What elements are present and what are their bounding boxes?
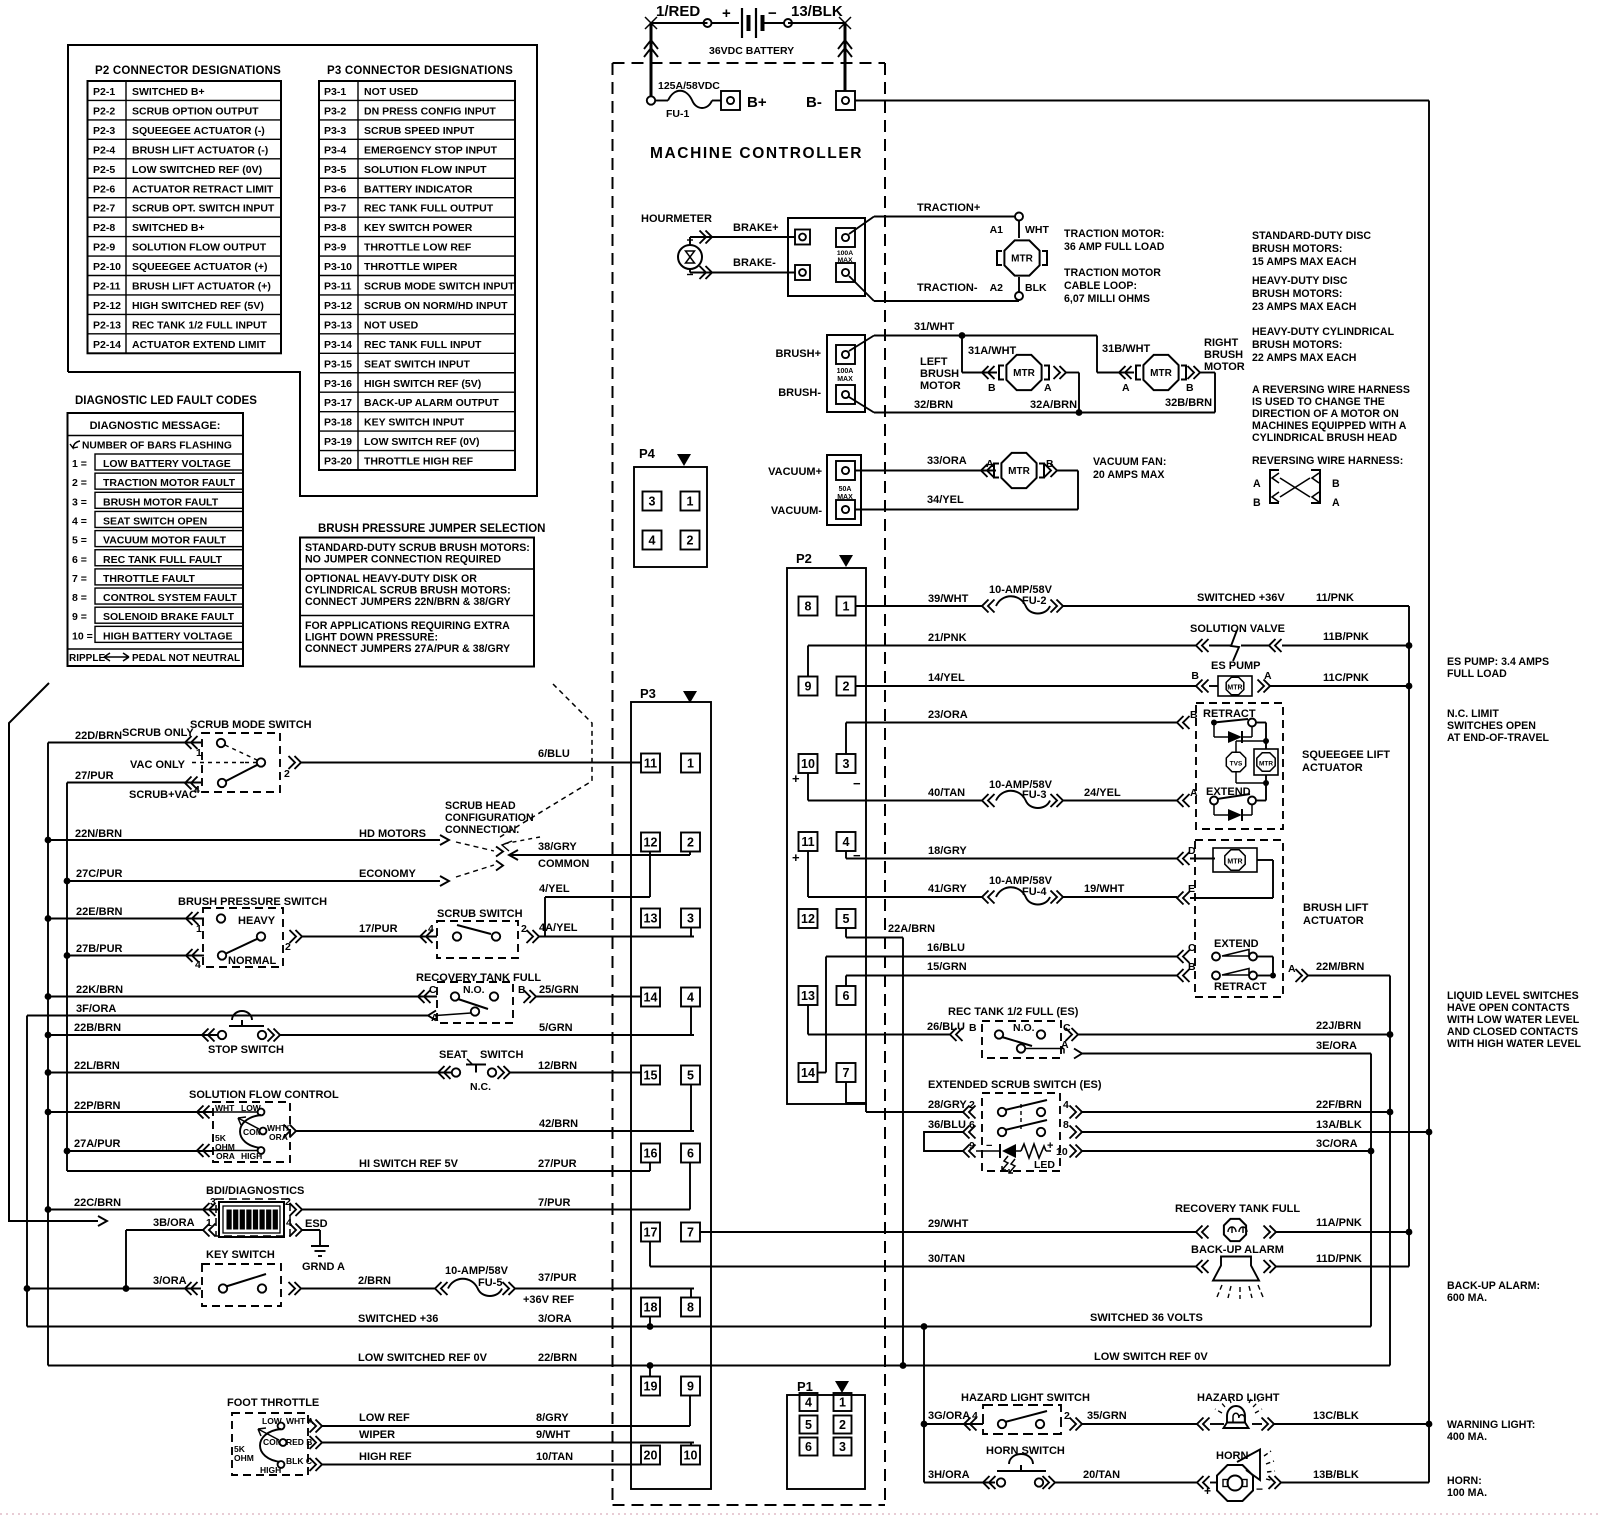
svg-text:ES PUMP: ES PUMP [1211,660,1261,672]
svg-text:15/GRN: 15/GRN [927,961,967,973]
svg-text:BLK: BLK [1025,282,1047,294]
BDI/diagnostics display U1 [206,1185,304,1237]
brush 100A MAX fuse block [775,335,865,412]
svg-text:18/GRY: 18/GRY [928,845,967,857]
svg-text:FU-2: FU-2 [1022,595,1046,607]
svg-text:HEAVY-DUTY CYLINDRICAL: HEAVY-DUTY CYLINDRICAL [1252,326,1395,338]
svg-text:ORA: ORA [216,1151,235,1161]
svg-text:SCRUB SWITCH: SCRUB SWITCH [437,908,523,920]
svg-text:400 MA.: 400 MA. [1447,1431,1487,1443]
svg-text:FU-1: FU-1 [666,108,689,120]
svg-text:10/TAN: 10/TAN [536,1451,573,1463]
svg-text:11D/PNK: 11D/PNK [1316,1253,1362,1265]
reversing wire harness symbol [1252,455,1403,509]
svg-text:3B/ORA: 3B/ORA [153,1217,195,1229]
svg-text:LOW REF: LOW REF [359,1412,410,1424]
svg-text:34/YEL: 34/YEL [927,494,964,506]
wire 32B/BRN from right brush motor [1165,366,1215,413]
svg-text:1: 1 [687,757,694,771]
wire 21/PNK from P2-9 [808,632,1196,677]
svg-text:CONNECTION.: CONNECTION. [445,824,519,836]
svg-text:BRUSH MOTORS:: BRUSH MOTORS: [1252,288,1342,300]
svg-text:2: 2 [1064,1410,1070,1422]
svg-text:P2-13: P2-13 [93,319,121,331]
svg-text:BRAKE+: BRAKE+ [733,222,779,234]
svg-text:37/PUR: 37/PUR [538,1272,577,1284]
wire 22N/BRN HD MOTORS [48,828,449,919]
junction 27B/PUR [64,952,71,959]
brush pressure jumper selection box [300,523,545,667]
wire 22P/BRN [48,1100,213,1210]
ES pump motor M2 [1191,660,1409,696]
horn LS2 [1204,1450,1429,1502]
svg-text:RETRACT: RETRACT [1214,981,1267,993]
svg-text:P2-14: P2-14 [93,339,121,351]
svg-text:4: 4 [286,1217,292,1229]
svg-text:4: 4 [649,534,656,548]
svg-text:1: 1 [839,1396,846,1410]
svg-text:17/PUR: 17/PUR [359,923,398,935]
wire 4/YEL to P3-12 [539,852,650,897]
svg-text:29/WHT: 29/WHT [928,1218,969,1230]
svg-text:TVS: TVS [1230,761,1243,768]
svg-text:SOLUTION FLOW OUTPUT: SOLUTION FLOW OUTPUT [132,242,267,254]
recovery tank full switch S5 [416,972,541,1023]
svg-text:+: + [792,850,800,865]
svg-text:100 MA.: 100 MA. [1447,1487,1487,1499]
svg-text:BRUSH LIFT ACTUATOR (+): BRUSH LIFT ACTUATOR (+) [132,281,271,293]
svg-text:2 =: 2 = [72,477,87,489]
svg-text:P3-12: P3-12 [324,300,352,312]
diagnostic LED fault codes table [68,395,258,666]
note warning light load [1447,1419,1535,1443]
wire 33/ORA to vacuum motor [855,455,996,477]
svg-text:HIGH REF: HIGH REF [359,1451,412,1463]
note reversing wire harness usage [1252,384,1410,444]
svg-text:2: 2 [687,534,694,548]
svg-text:BRUSH LIFT: BRUSH LIFT [1303,902,1369,914]
svg-text:4: 4 [1063,1099,1069,1111]
svg-text:3/ORA: 3/ORA [538,1313,572,1325]
svg-text:RIGHT: RIGHT [1204,337,1239,349]
svg-text:A: A [1044,382,1052,394]
wire 37/PUR +36V REF to P3-8 [515,1272,694,1306]
wire 6/BLU scrub mode to P3-11 [301,748,641,763]
junction 13C/BLK on B- bus [1426,1421,1433,1428]
wire 29/WHT from P3-7 [700,1218,1196,1232]
svg-text:HIGH BATTERY VOLTAGE: HIGH BATTERY VOLTAGE [103,630,233,642]
svg-text:C: C [1188,942,1196,954]
wire BRAKE- [690,257,795,279]
svg-text:9: 9 [969,1140,975,1152]
svg-text:3: 3 [649,495,656,509]
page edge dotted line [0,1513,1600,1515]
svg-text:MTR: MTR [1227,685,1242,692]
svg-text:P3-11: P3-11 [324,281,352,293]
svg-text:NUMBER OF BARS FLASHING: NUMBER OF BARS FLASHING [82,441,232,452]
svg-text:9/WHT: 9/WHT [536,1429,571,1441]
svg-text:1: 1 [196,747,202,759]
svg-text:BLK C: BLK C [286,1456,312,1466]
svg-text:3/ORA: 3/ORA [153,1275,187,1287]
svg-text:3 =: 3 = [72,496,87,508]
svg-text:SWITCHED +36: SWITCHED +36 [358,1313,438,1325]
+36V bus riser [1408,606,1410,1267]
svg-text:MTR: MTR [1011,254,1033,265]
svg-text:NORMAL: NORMAL [228,955,277,967]
junction 27A/PUR [64,1148,71,1155]
wire 22M/BRN [1288,961,1390,982]
svg-text:22L/BRN: 22L/BRN [74,1060,120,1072]
svg-text:P3-5: P3-5 [324,164,346,176]
svg-text:MAX: MAX [837,494,853,501]
svg-text:P3-6: P3-6 [324,183,346,195]
svg-text:REC TANK FULL FAULT: REC TANK FULL FAULT [103,554,223,566]
svg-text:28/GRY: 28/GRY [928,1099,967,1111]
svg-text:P3-1: P3-1 [324,86,346,98]
svg-text:SWITCHED B+: SWITCHED B+ [132,86,205,98]
svg-text:11C/PNK: 11C/PNK [1323,672,1369,684]
svg-text:WHT A: WHT A [286,1416,314,1426]
wire 3G/ORA to hazard switch [924,1327,983,1431]
svg-text:WARNING LIGHT:: WARNING LIGHT: [1447,1419,1535,1431]
hazard light switch S11 [961,1392,1090,1434]
svg-text:41/GRY: 41/GRY [928,883,967,895]
svg-text:27C/PUR: 27C/PUR [76,868,123,880]
svg-text:EXTEND: EXTEND [1214,938,1259,950]
traction motor MTR [997,240,1047,275]
svg-text:5 =: 5 = [72,535,87,547]
svg-text:A: A [1288,963,1296,975]
svg-text:TRACTION MOTOR:: TRACTION MOTOR: [1064,228,1164,240]
wire ESD to ground [290,1218,328,1246]
svg-text:17: 17 [644,1226,658,1240]
svg-text:IS USED TO CHANGE THE: IS USED TO CHANGE THE [1252,396,1385,408]
svg-text:27/PUR: 27/PUR [538,1158,577,1170]
svg-text:EMERGENCY STOP INPUT: EMERGENCY STOP INPUT [364,144,498,156]
svg-text:1: 1 [843,600,850,614]
svg-text:P4: P4 [639,446,656,461]
svg-text:LEFT: LEFT [920,356,948,368]
wire 16/BLU from P2-14 to extend switch C [818,942,1197,1073]
svg-text:RED B: RED B [286,1437,312,1447]
svg-text:VAC ONLY: VAC ONLY [130,759,186,771]
svg-text:A: A [1253,478,1261,490]
note heavy-duty disc brush motors [1252,275,1356,313]
svg-text:KEY SWITCH: KEY SWITCH [206,1249,275,1261]
svg-text:P3-13: P3-13 [324,319,352,331]
svg-text:FULL LOAD: FULL LOAD [1447,668,1507,680]
svg-text:FU-5: FU-5 [478,1277,502,1289]
svg-text:LOW SWITCH REF (0V): LOW SWITCH REF (0V) [364,436,480,448]
svg-text:13/BLK: 13/BLK [791,3,843,20]
svg-text:HD MOTORS: HD MOTORS [359,828,426,840]
wire 7/PUR BDI to P3-6 [290,1162,691,1216]
wire BRAKE+ [690,222,795,245]
wire 32/BRN brush motor return [849,397,1215,413]
squeegee lift actuator A1 [1196,703,1283,829]
junction switched36 at P3-18 [647,1323,654,1330]
svg-text:ACTUATOR: ACTUATOR [1303,915,1364,927]
svg-text:35/GRN: 35/GRN [1087,1410,1127,1422]
svg-text:16/BLU: 16/BLU [927,942,965,954]
svg-text:EXTENDED SCRUB SWITCH (ES): EXTENDED SCRUB SWITCH (ES) [928,1079,1102,1091]
svg-text:P3-14: P3-14 [324,339,352,351]
svg-text:COMMON: COMMON [538,858,589,870]
svg-text:BRAKE-: BRAKE- [733,257,776,269]
junction 22N/BRN [45,837,52,844]
svg-text:1: 1 [687,495,694,509]
back-up alarm LS1 [1191,1244,1409,1299]
svg-text:TRACTION+: TRACTION+ [917,202,980,214]
scrub head configuration connection (dashed) [445,800,540,877]
svg-text:BRUSH MOTORS:: BRUSH MOTORS: [1252,339,1342,351]
wire 42/BRN to P3-5 [296,1085,694,1131]
svg-text:BRUSH-: BRUSH- [778,387,821,399]
wire battery positive 1/RED to fuse FU-1 [644,17,708,101]
svg-text:P3-18: P3-18 [324,417,352,429]
svg-text:14/YEL: 14/YEL [928,672,965,684]
svg-text:8: 8 [805,600,812,614]
wire 22F/BRN [1082,1099,1390,1112]
svg-text:22J/BRN: 22J/BRN [1316,1020,1361,1032]
svg-text:HI SWITCH REF 5V: HI SWITCH REF 5V [359,1158,459,1170]
svg-text:MAX: MAX [837,376,853,383]
svg-text:600 MA.: 600 MA. [1447,1292,1487,1304]
svg-text:2: 2 [284,768,290,780]
svg-text:HEAVY-DUTY DISC: HEAVY-DUTY DISC [1252,275,1348,287]
wire 28/GRY from P2-7 [846,1082,976,1119]
wire 2/BRN to fuse FU-5 [301,1275,448,1295]
svg-text:LOW SWITCHED REF (0V): LOW SWITCHED REF (0V) [132,164,262,176]
svg-text:40/TAN: 40/TAN [928,787,965,799]
svg-text:FOOT THROTTLE: FOOT THROTTLE [227,1397,319,1409]
svg-text:NOT USED: NOT USED [364,86,419,98]
P2 connector designations table [88,65,282,353]
svg-text:3H/ORA: 3H/ORA [928,1469,970,1481]
svg-text:38/GRY: 38/GRY [538,841,577,853]
svg-text:MACHINES EQUIPPED WITH A: MACHINES EQUIPPED WITH A [1252,420,1407,432]
svg-text:MTR: MTR [1227,859,1242,866]
svg-text:VACUUM MOTOR FAULT: VACUUM MOTOR FAULT [103,535,227,547]
wire B- to right bus [855,100,1429,102]
svg-text:A: A [431,1012,439,1024]
svg-text:REVERSING WIRE HARNESS:: REVERSING WIRE HARNESS: [1252,455,1403,467]
brake terminal block [795,230,810,281]
svg-text:ACTUATOR EXTEND LIMIT: ACTUATOR EXTEND LIMIT [132,339,266,351]
svg-text:4A/YEL: 4A/YEL [539,922,578,934]
note vacuum fan load [1093,456,1166,481]
svg-text:5: 5 [805,1418,812,1432]
svg-text:CYLINDRICAL SCRUB BRUSH MOTORS: CYLINDRICAL SCRUB BRUSH MOTORS: [305,585,511,597]
svg-text:MTR: MTR [1008,466,1030,477]
svg-text:3E/ORA: 3E/ORA [1316,1040,1357,1052]
wire TRACTION+ A1/WHT [849,202,1049,238]
svg-text:CONNECT JUMPERS 22N/BRN & 38/G: CONNECT JUMPERS 22N/BRN & 38/GRY [305,596,511,608]
harness boundary dashed line near P3 [500,684,592,837]
svg-text:OHM: OHM [234,1453,254,1463]
svg-text:TRACTION-: TRACTION- [917,282,978,294]
svg-text:SEAT SWITCH INPUT: SEAT SWITCH INPUT [364,358,471,370]
svg-text:11A/PNK: 11A/PNK [1316,1217,1362,1229]
svg-text:BRUSH: BRUSH [1204,349,1243,361]
svg-text:6/BLU: 6/BLU [538,748,570,760]
junction 3/ORA key switch feed [24,1285,31,1292]
wire SWITCHED +36 3/ORA [27,1289,1371,1327]
seat switch S7 [439,1049,523,1093]
svg-text:22M/BRN: 22M/BRN [1316,961,1364,973]
svg-text:P3-7: P3-7 [324,203,346,215]
hourmeter M1 [641,213,712,275]
svg-text:P2: P2 [796,551,812,566]
junction 13A/BLK on B- bus [1426,1129,1433,1136]
svg-text:LIGHT DOWN PRESSURE:: LIGHT DOWN PRESSURE: [305,632,438,644]
svg-text:BRUSH PRESSURE SWITCH: BRUSH PRESSURE SWITCH [178,896,327,908]
brush lift actuator A2 [1190,840,1283,997]
svg-text:31A/WHT: 31A/WHT [968,345,1017,357]
svg-text:P3-4: P3-4 [324,144,346,156]
svg-text:+: + [1204,1484,1211,1498]
brush pressure switch S3 [178,896,327,971]
svg-text:SCRUB OPTION OUTPUT: SCRUB OPTION OUTPUT [132,105,259,117]
label squeegee lift actuator [1302,749,1390,774]
svg-text:HAVE OPEN CONTACTS: HAVE OPEN CONTACTS [1447,1002,1570,1014]
wire TRACTION- A2/BLK [849,276,1047,301]
svg-text:P3-3: P3-3 [324,125,346,137]
wire 17/PUR to scrub switch [302,923,437,943]
svg-text:P2-8: P2-8 [93,222,115,234]
note horn load [1447,1475,1487,1499]
note ES pump load [1447,656,1549,680]
svg-text:A: A [1332,497,1340,509]
note traction motor cable loop [1064,267,1161,305]
svg-text:3G/ORA: 3G/ORA [928,1410,970,1422]
svg-text:P1: P1 [797,1379,813,1394]
svg-text:B: B [1191,670,1199,682]
svg-text:B-: B- [806,94,822,111]
svg-text:THROTTLE LOW REF: THROTTLE LOW REF [364,242,472,254]
wire 27/PUR [67,770,201,881]
svg-text:HAZARD LIGHT: HAZARD LIGHT [1197,1392,1280,1404]
svg-text:N.C. LIMIT: N.C. LIMIT [1447,708,1499,720]
svg-text:7: 7 [687,1226,694,1240]
svg-text:MTR: MTR [1013,368,1035,379]
svg-text:20: 20 [644,1449,658,1463]
svg-text:OPTIONAL HEAVY-DUTY DISK OR: OPTIONAL HEAVY-DUTY DISK OR [305,573,477,585]
wire 30/TAN from P3-17 [650,1242,1196,1267]
wire 27C/PUR ECONOMY [67,868,449,956]
svg-text:4/YEL: 4/YEL [539,883,570,895]
svg-text:HORN:: HORN: [1447,1475,1482,1487]
svg-text:10 =: 10 = [72,630,93,642]
traction 100A MAX fuse block [788,218,865,296]
svg-text:+: + [1047,1140,1053,1152]
junction hazard tap [921,1421,928,1428]
junction 32A/BRN node [1076,409,1083,416]
wire 36/BLU loop to LED [924,1119,976,1158]
svg-text:CYLINDRICAL BRUSH HEAD: CYLINDRICAL BRUSH HEAD [1252,432,1398,444]
svg-text:7: 7 [843,1066,850,1080]
wire 25/GRN to P3-14 [536,984,641,997]
svg-text:MTR: MTR [1259,761,1273,768]
svg-text:20/TAN: 20/TAN [1083,1469,1120,1481]
right brush motor MTR [1136,355,1186,390]
svg-text:BRUSH MOTORS:: BRUSH MOTORS: [1252,243,1342,255]
svg-text:6: 6 [843,989,850,1003]
svg-text:−: − [986,1140,992,1152]
svg-text:P2-7: P2-7 [93,203,115,215]
ground GRND A [302,1246,345,1273]
svg-text:33/ORA: 33/ORA [927,455,967,467]
svg-text:2: 2 [687,836,694,850]
label brush lift actuator [1303,902,1369,927]
svg-text:PEDAL NOT NEUTRAL: PEDAL NOT NEUTRAL [132,653,240,664]
wire 18/GRY from P2-4 [846,845,1196,865]
svg-text:WITH LOW WATER LEVEL: WITH LOW WATER LEVEL [1447,1014,1580,1026]
svg-text:LOW SWITCHED REF 0V: LOW SWITCHED REF 0V [358,1352,488,1364]
svg-text:B: B [1186,382,1194,394]
svg-text:HIGH SWITCHED REF (5V): HIGH SWITCHED REF (5V) [132,300,264,312]
svg-text:−: − [853,776,861,791]
junction 27C/PUR [64,878,71,885]
svg-text:6 =: 6 = [72,554,87,566]
svg-text:BRUSH MOTOR FAULT: BRUSH MOTOR FAULT [103,496,219,508]
svg-text:SCRUB HEAD: SCRUB HEAD [445,800,516,812]
svg-text:RIPPLE: RIPPLE [69,653,105,664]
svg-text:9 =: 9 = [72,611,87,623]
svg-text:SCRUB ONLY: SCRUB ONLY [122,727,194,739]
junction 22F/BRN on 0V riser [1387,1109,1394,1116]
svg-text:B: B [1332,478,1340,490]
svg-text:P3-2: P3-2 [324,105,346,117]
svg-text:P2-11: P2-11 [93,281,121,293]
svg-text:SCRUB ON NORM/HD INPUT: SCRUB ON NORM/HD INPUT [364,300,508,312]
wire 14/YEL from P2-2 [855,672,1196,686]
wire WIPER 9/WHT to P3-10 [310,1429,695,1449]
svg-text:BATTERY INDICATOR: BATTERY INDICATOR [364,183,473,195]
svg-text:3: 3 [210,1196,216,1208]
svg-text:4: 4 [972,1410,978,1422]
svg-text:12/BRN: 12/BRN [538,1060,577,1072]
svg-text:16: 16 [644,1147,658,1161]
svg-text:CABLE LOOP:: CABLE LOOP: [1064,280,1137,292]
svg-text:BRUSH PRESSURE JUMPER SELECTIO: BRUSH PRESSURE JUMPER SELECTION [318,523,545,535]
svg-text:SWITCHED 36 VOLTS: SWITCHED 36 VOLTS [1090,1312,1203,1324]
svg-text:27A/PUR: 27A/PUR [74,1138,121,1150]
svg-text:B: B [1188,961,1196,973]
svg-text:HEAVY: HEAVY [238,915,276,927]
fuse FU-5 10-AMP/58V [445,1265,515,1296]
fuse FU-3 10-AMP/58V [989,779,1063,808]
svg-text:22A/BRN: 22A/BRN [888,923,935,935]
svg-text:WHT: WHT [1025,224,1049,236]
wire 3C/ORA [1082,1138,1371,1151]
note traction motor load [1064,228,1165,253]
svg-text:SCRUB OPT. SWITCH INPUT: SCRUB OPT. SWITCH INPUT [132,203,275,215]
svg-text:5: 5 [687,1069,694,1083]
junction 3B/ORA tap [123,1285,130,1292]
svg-text:VACUUM+: VACUUM+ [768,466,822,478]
svg-text:P3: P3 [640,686,656,701]
svg-text:SQUEEGEE LIFT: SQUEEGEE LIFT [1302,749,1390,761]
connector P1 [787,1379,865,1489]
svg-text:13: 13 [801,989,815,1003]
svg-text:32A/BRN: 32A/BRN [1030,399,1077,411]
wire 22B/BRN stop switch 5/GRN [48,1022,218,1073]
svg-text:P3-10: P3-10 [324,261,352,273]
svg-text:20 AMPS MAX: 20 AMPS MAX [1093,469,1164,481]
svg-text:11: 11 [644,757,657,771]
